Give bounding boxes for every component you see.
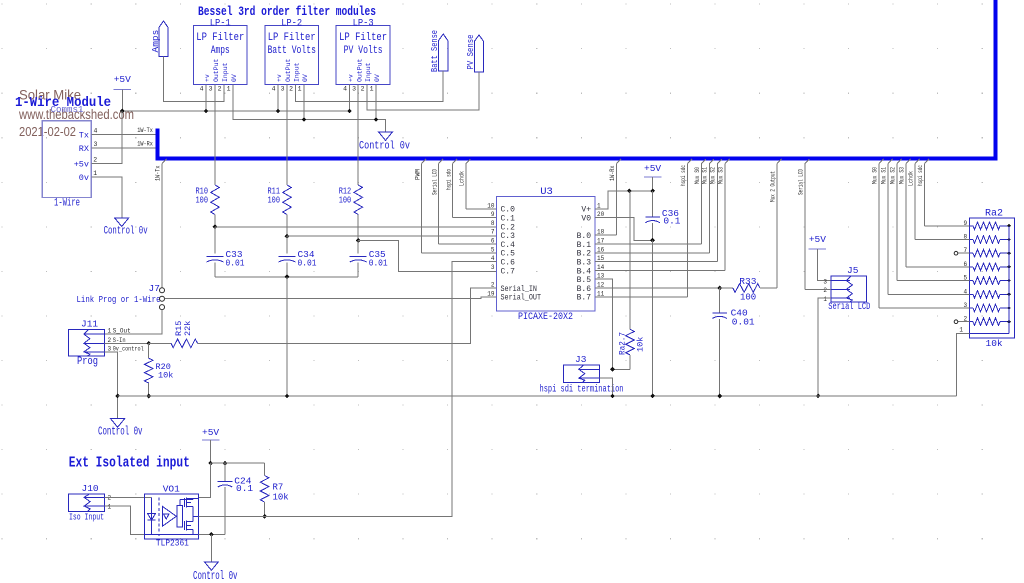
svg-text:0.1: 0.1: [236, 483, 253, 494]
svg-text:Ext Isolated input: Ext Isolated input: [69, 456, 190, 472]
capacitor C35 0.01: [357, 241, 359, 254]
power +5V (ext): [202, 439, 220, 441]
svg-text:10: 10: [487, 202, 495, 209]
svg-text:C.2: C.2: [501, 223, 516, 232]
wire LP-3 0V stub: [375, 84, 377, 119]
capacitor C33 0.01: [214, 227, 216, 254]
svg-text:3: 3: [352, 86, 356, 93]
svg-text:1W-Tx: 1W-Tx: [154, 165, 161, 181]
svg-text:S_Out: S_Out: [113, 328, 131, 335]
svg-text:J5: J5: [847, 265, 859, 276]
ground Control 0v (J11): [111, 419, 125, 428]
svg-text:2: 2: [108, 337, 112, 344]
svg-text:10k: 10k: [636, 337, 646, 352]
ground Control 0v (VO1): [204, 562, 218, 571]
svg-text:Mux 2 Output: Mux 2 Output: [769, 171, 776, 202]
svg-text:Serial_OUT: Serial_OUT: [501, 294, 542, 303]
svg-text:12: 12: [597, 282, 605, 289]
wire bus tap Mux S2 to Ra2 pin5: [897, 159, 902, 164]
resistor R10 100: [211, 185, 220, 215]
module LP-2 LP Filter Batt Volts: [265, 25, 319, 84]
junction 0V rail: [302, 117, 307, 122]
connector J3 hspi sdi termination: [563, 365, 599, 383]
wire Tx to bus (1W-Tx): [91, 134, 155, 136]
svg-text:TLP2361: TLP2361: [156, 538, 189, 549]
wire U3 B.4 to bus tap Mux S3: [595, 269, 725, 271]
svg-text:Batt Sense: Batt Sense: [429, 30, 440, 72]
svg-text:R7: R7: [273, 483, 284, 493]
svg-text:Tx: Tx: [79, 131, 89, 141]
svg-text:C.6: C.6: [501, 259, 516, 268]
svg-text:+v: +v: [276, 74, 283, 82]
capacitor C24 0.1: [224, 463, 226, 481]
svg-text:hspi sdi termination: hspi sdi termination: [540, 384, 624, 396]
svg-text:Comms1: Comms1: [51, 104, 84, 115]
junction C40 gnd on rail: [717, 394, 722, 399]
bus 1-wire serial (thick blue): [155, 128, 159, 158]
IC U3 PICAXE-20X2: [497, 197, 596, 312]
svg-text:hspi sdc: hspi sdc: [680, 165, 687, 186]
wire R11 node to U3 C.3: [287, 235, 497, 237]
wire R10 node to U3 C.2: [215, 226, 497, 228]
wire +5V stem (ext): [210, 440, 212, 463]
wire bus tap Mux S3 to Ra2 pin6: [906, 159, 911, 164]
wire LP 0V rail: [233, 84, 386, 131]
svg-text:100: 100: [740, 293, 756, 303]
svg-text:B.3: B.3: [577, 259, 592, 268]
svg-text:19: 19: [487, 290, 495, 297]
svg-text:+v: +v: [204, 74, 211, 82]
wire PV Sense to LP-3 Input: [367, 72, 479, 110]
svg-text:3: 3: [94, 141, 98, 148]
wire R12 node to U3 C.7: [358, 241, 496, 272]
connector J5 Serial LCD: [831, 276, 867, 302]
wire U3 B.3 to bus tap Mux S2: [595, 261, 717, 263]
svg-text:Ra2: Ra2: [985, 209, 1003, 220]
svg-text:2: 2: [491, 282, 495, 289]
wire J7 mid to U3 Serial_OUT: [165, 297, 497, 299]
svg-text:1-Wire: 1-Wire: [54, 198, 80, 210]
wire RX to bus (1W-Rx): [91, 147, 155, 149]
junction R15/R20 node: [146, 341, 151, 346]
svg-text:R33: R33: [739, 276, 756, 287]
svg-text:OutPut: OutPut: [356, 58, 363, 82]
junction R20 bottom: [146, 394, 151, 399]
junction J3 gnd on rail: [610, 394, 615, 399]
svg-text:LP-3: LP-3: [353, 18, 374, 30]
svg-text:4: 4: [94, 128, 98, 135]
wire bus tap Serial LCD to U3 C.4: [439, 159, 444, 164]
no-connect Ra2 pin 7: [958, 252, 970, 254]
wire bus tap PWM to U3 C.5: [422, 159, 427, 164]
svg-text:Mux S0: Mux S0: [871, 167, 878, 184]
svg-text:B.7: B.7: [577, 294, 592, 303]
power +5V (U3): [644, 176, 662, 178]
svg-text:1W-Rx: 1W-Rx: [609, 165, 616, 181]
svg-text:+5V: +5V: [644, 163, 661, 174]
flag Batt Sense: [439, 34, 448, 71]
svg-text:C.0: C.0: [501, 206, 516, 215]
junction B.6 node: [717, 286, 722, 291]
svg-text:0.01: 0.01: [298, 258, 317, 269]
svg-text:1: 1: [108, 328, 112, 335]
svg-text:Control 0v: Control 0v: [104, 226, 148, 238]
svg-text:C.1: C.1: [501, 215, 516, 224]
junction R10 node: [213, 225, 218, 230]
junction C36 bottom: [650, 238, 655, 243]
resistor R12 100: [354, 185, 363, 215]
svg-text:Lchdk: Lchdk: [907, 171, 914, 186]
svg-text:OutPut: OutPut: [213, 58, 220, 82]
svg-text:PV Sense: PV Sense: [465, 34, 476, 69]
wire C33/C34/C35 common bottom: [215, 276, 358, 278]
power +5V (J5): [809, 248, 827, 250]
no-connect Ra2 pin 2: [958, 321, 970, 323]
svg-text:0.01: 0.01: [226, 258, 245, 269]
wire 0v rail (bottom): [118, 395, 957, 397]
svg-text:Input: Input: [365, 62, 372, 82]
svg-text:Mux S1: Mux S1: [880, 167, 887, 184]
svg-text:B.0: B.0: [577, 232, 592, 241]
wire U3 B.6 to R33: [595, 287, 720, 289]
wire bus tap hspi sdo to U3 C.1: [453, 159, 458, 164]
svg-text:1: 1: [298, 86, 302, 93]
svg-text:hspi sdo: hspi sdo: [445, 169, 452, 190]
svg-text:2: 2: [108, 495, 112, 502]
svg-text:0V: 0V: [231, 74, 238, 82]
svg-text:Serial LCD: Serial LCD: [431, 169, 438, 195]
wire +5V to VO1 vcc: [199, 463, 211, 497]
svg-text:1: 1: [959, 327, 963, 334]
svg-text:4: 4: [491, 255, 495, 262]
svg-text:LP Filter: LP Filter: [196, 32, 244, 44]
wire Ra2 common bar: [1008, 226, 1010, 334]
wire LP OutPut down to R10: [214, 84, 216, 185]
wire LP-2 0V stub: [303, 84, 305, 119]
wire C34 bottom to 0v rail: [286, 277, 288, 396]
svg-text:+v: +v: [347, 74, 354, 82]
svg-text:3: 3: [209, 86, 213, 93]
svg-text:LP Filter: LP Filter: [339, 32, 387, 44]
resistor network Ra2 10k: [970, 218, 1015, 338]
wire bus tap Mux S1 to Ra2 pin4: [888, 159, 893, 164]
svg-text:VO1: VO1: [163, 484, 180, 495]
svg-text:1: 1: [370, 86, 374, 93]
svg-text:V0: V0: [581, 215, 591, 224]
wire U3 B.2 to bus tap Mux S1: [595, 252, 709, 254]
svg-text:U3: U3: [540, 186, 553, 198]
junction J5 gnd on rail: [816, 394, 821, 399]
svg-text:Mux S3: Mux S3: [898, 167, 905, 184]
wire LP-2 +v stub: [277, 84, 279, 111]
svg-text:10k: 10k: [986, 338, 1003, 349]
wire +5V stem (U3): [652, 177, 654, 191]
svg-text:Serial LCD: Serial LCD: [828, 301, 870, 313]
svg-text:11: 11: [597, 290, 605, 297]
wire VO1 output to U3 C.6: [265, 262, 497, 517]
svg-text:Iso Input: Iso Input: [69, 512, 104, 523]
wire Ra2 pin1 to 0v rail: [957, 333, 970, 396]
svg-text:LP Filter: LP Filter: [268, 32, 316, 44]
svg-text:Input: Input: [293, 62, 300, 82]
svg-text:B.2: B.2: [577, 250, 592, 259]
svg-text:J7: J7: [149, 283, 160, 294]
ground Control 0v (1-wire): [115, 218, 129, 227]
svg-text:Serial LCD: Serial LCD: [797, 169, 804, 195]
wire U3 V0 jog to C36 bottom: [595, 218, 653, 241]
svg-text:J10: J10: [82, 483, 99, 494]
svg-text:C.4: C.4: [501, 241, 516, 250]
svg-text:J3: J3: [575, 354, 587, 365]
junction rail left end: [115, 394, 120, 399]
svg-text:Prog: Prog: [77, 356, 98, 368]
wire +5V rail to LP +v pins: [122, 84, 349, 111]
svg-text:1: 1: [227, 86, 231, 93]
svg-text:4: 4: [343, 86, 347, 93]
wire R33 to bus tap Mux 2 Output: [777, 159, 782, 164]
wire LP OutPut down to R12: [357, 84, 359, 185]
wire Batt Sense to LP-2 Input: [296, 71, 444, 102]
svg-text:C.7: C.7: [501, 267, 516, 276]
svg-text:0V: 0V: [374, 74, 381, 82]
svg-text:LP-1: LP-1: [210, 18, 231, 30]
svg-text:100: 100: [196, 195, 209, 205]
junction +5V node: [627, 189, 632, 194]
wire U3 B.5 down to J3 node: [595, 279, 613, 369]
svg-text:4: 4: [200, 86, 204, 93]
svg-text:8: 8: [491, 220, 495, 227]
wire J3 pin2 to 0v rail: [599, 378, 612, 396]
flag Amps: [159, 21, 168, 57]
svg-text:0v: 0v: [79, 173, 89, 183]
junction +5V rail: [120, 109, 125, 114]
flag PV Sense: [474, 35, 483, 72]
junction R7 bottom: [262, 514, 267, 519]
svg-text:S-In: S-In: [113, 337, 126, 344]
svg-text:0.01: 0.01: [732, 317, 755, 328]
module LP-1 LP Filter Amps: [193, 25, 247, 84]
wire 0v pin to ground: [91, 177, 122, 218]
svg-text:10k: 10k: [158, 371, 173, 381]
svg-text:Input: Input: [222, 62, 229, 82]
wire J10 pin1 to VO1 cathode: [105, 506, 152, 534]
wire +5V stem: [121, 90, 123, 112]
wire J11 pin3 to ground: [104, 352, 117, 419]
svg-text:Mux S2: Mux S2: [889, 167, 896, 184]
svg-text:C.5: C.5: [501, 250, 516, 259]
svg-text:16: 16: [597, 246, 605, 253]
wire J7 bottom to J11 pin1: [104, 310, 162, 334]
wire U3 V+ to +5V node: [595, 191, 653, 209]
svg-text:14: 14: [597, 264, 605, 271]
junction C34 riser on rail: [285, 394, 290, 399]
resistor R20 10k: [148, 343, 150, 358]
capacitor C40 0.01: [719, 288, 721, 313]
svg-text:1: 1: [108, 503, 112, 510]
svg-text:Mux S1: Mux S1: [702, 167, 709, 184]
wire J5 pin1 to 0v rail: [818, 298, 831, 396]
junction LP-3 +v: [347, 109, 352, 114]
wire LP OutPut down to R11: [286, 84, 288, 185]
svg-text:Ra2.7: Ra2.7: [618, 332, 628, 355]
svg-text:1: 1: [93, 170, 97, 177]
resistor R11 100: [283, 185, 292, 215]
svg-text:Mux S2: Mux S2: [710, 167, 717, 184]
svg-text:RX: RX: [79, 144, 89, 154]
svg-text:LP-2: LP-2: [281, 18, 302, 30]
svg-text:Control 0v: Control 0v: [98, 426, 143, 439]
resistor R33 100: [720, 287, 733, 289]
wire U3 B.7 to bus tap hspi sdc: [595, 296, 688, 298]
connector J11 Prog: [69, 329, 105, 356]
wire C36 bottom to 0v rail: [652, 240, 654, 396]
wire J10 pin2 to VO1 anode: [105, 496, 152, 498]
wire LP-1 +v stub: [205, 84, 207, 111]
svg-text:B.6: B.6: [577, 285, 592, 294]
junction R11 node: [285, 234, 290, 239]
junction C36 gnd on rail: [650, 394, 655, 399]
svg-text:1W-Rx: 1W-Rx: [137, 140, 153, 147]
svg-text:B.5: B.5: [577, 276, 592, 285]
svg-text:Amps: Amps: [150, 30, 161, 53]
capacitor C34 0.01: [286, 236, 288, 253]
svg-text:Batt Volts: Batt Volts: [267, 45, 316, 57]
optocoupler VO1 TLP2361: [145, 494, 199, 539]
svg-text:+5v: +5v: [74, 159, 89, 169]
svg-text:hspi sdc: hspi sdc: [917, 165, 924, 186]
wire bus tap Lchdk to U3 C.0: [466, 159, 471, 164]
svg-text:PICAXE-20X2: PICAXE-20X2: [518, 312, 573, 323]
wire U3 B.0 to bus tap 1W-Rx: [595, 234, 617, 236]
wire +5V to J5 pin3: [817, 249, 831, 281]
wire bus tap Lchdk to Ra2 pin8: [915, 159, 920, 164]
svg-text:2: 2: [361, 86, 365, 93]
svg-text:+5V: +5V: [809, 234, 826, 245]
svg-text:Control 0v: Control 0v: [193, 570, 238, 583]
junction J3 node: [610, 367, 615, 372]
svg-text:4: 4: [272, 86, 276, 93]
ground Control 0v (LP modules): [379, 132, 393, 141]
svg-text:17: 17: [597, 238, 605, 245]
junction +5V ext node: [208, 461, 213, 466]
svg-text:0V: 0V: [302, 74, 309, 82]
svg-text:5: 5: [491, 246, 495, 253]
svg-text:J11: J11: [81, 319, 98, 330]
junction R12 node: [356, 238, 361, 243]
capacitor C36 0.1: [652, 191, 654, 217]
svg-text:6: 6: [491, 238, 495, 245]
resistor R15 22k: [149, 342, 171, 344]
junction VO1 gnd: [209, 532, 214, 537]
wire bus tap 1W-Tx down to J7: [162, 159, 167, 164]
wire Amps to LP-1 Input: [164, 57, 225, 102]
svg-text:22k: 22k: [183, 321, 193, 336]
svg-text:9: 9: [491, 211, 495, 218]
svg-text:B.1: B.1: [577, 241, 592, 250]
component Comms1 1-Wire module: [42, 121, 91, 198]
svg-text:3: 3: [281, 86, 285, 93]
svg-text:13: 13: [597, 273, 605, 280]
wire bus tap Serial LCD to J5 pin2: [805, 159, 810, 164]
svg-text:15: 15: [597, 255, 605, 262]
svg-text:100: 100: [268, 195, 281, 205]
junction C34 bottom: [285, 274, 290, 279]
svg-text:1: 1: [823, 296, 827, 303]
svg-text:20: 20: [597, 211, 605, 218]
svg-text:V+: V+: [581, 206, 591, 215]
svg-text:100: 100: [339, 195, 352, 205]
svg-text:Lchdk: Lchdk: [459, 171, 466, 186]
power +5V (top left): [114, 89, 132, 91]
svg-text:Control 0v: Control 0v: [359, 141, 410, 153]
resistor Ra2.7 10k (pullup): [629, 191, 631, 329]
svg-text:OutPut: OutPut: [285, 58, 292, 82]
svg-text:2: 2: [218, 86, 222, 93]
svg-text:PV Volts: PV Volts: [344, 45, 383, 57]
wire bus tap hspi sdc to Ra2 pin9: [925, 159, 930, 164]
svg-text:Amps: Amps: [211, 45, 230, 57]
svg-text:PWM: PWM: [414, 169, 421, 180]
wire Ra2.7 bottom to J3 node: [613, 368, 631, 370]
svg-text:7: 7: [491, 229, 495, 236]
connector J10 Iso Input: [69, 494, 105, 511]
svg-text:Mux S3: Mux S3: [718, 167, 725, 184]
svg-text:0.1: 0.1: [663, 216, 680, 227]
wire VO1 output: [199, 515, 265, 517]
wire VO1 gnd: [199, 533, 225, 535]
svg-text:3: 3: [823, 279, 827, 286]
svg-text:2: 2: [93, 156, 97, 163]
svg-text:Mux S0: Mux S0: [694, 167, 701, 184]
svg-text:2: 2: [289, 86, 293, 93]
svg-text:C.3: C.3: [501, 232, 516, 241]
svg-text:Serial_IN: Serial_IN: [501, 285, 538, 294]
svg-text:2: 2: [823, 287, 827, 294]
wire +5v pin riser: [91, 111, 122, 163]
svg-text:+5V: +5V: [114, 74, 131, 85]
svg-text:B.4: B.4: [577, 267, 592, 276]
svg-text:18: 18: [597, 229, 605, 236]
svg-text:10k: 10k: [273, 493, 289, 503]
wire R15 to U3 Serial_IN: [198, 288, 497, 343]
wire bus tap Mux S0 to Ra2 pin3: [879, 159, 884, 164]
svg-text:3: 3: [491, 264, 495, 271]
wire +5V node across to R7: [211, 462, 265, 464]
svg-text:+5V: +5V: [202, 427, 219, 438]
module LP-3 LP Filter PV Volts: [336, 25, 390, 84]
svg-text:1: 1: [597, 202, 601, 209]
svg-text:2021-02-02: 2021-02-02: [19, 125, 76, 139]
wire U3 B.1 to bus tap Mux S0: [595, 243, 701, 245]
svg-text:Link Prog or 1-Wire: Link Prog or 1-Wire: [77, 294, 161, 305]
svg-text:0.01: 0.01: [369, 258, 388, 269]
wire J11 pin2 to R15: [104, 342, 148, 344]
resistor R7 10k: [264, 463, 266, 475]
wire VO1 gnd drop: [210, 534, 212, 561]
svg-text:1W-Tx: 1W-Tx: [137, 127, 153, 134]
